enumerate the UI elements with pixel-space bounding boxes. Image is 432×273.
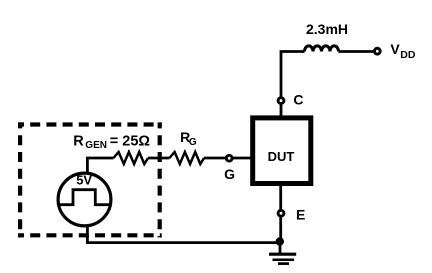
- wire: junction to ground: [279, 242, 282, 255]
- svg-text:DUT: DUT: [268, 149, 295, 164]
- dashed generator box: [18, 122, 162, 237]
- ground: [269, 254, 296, 263]
- node E open circle: [278, 210, 284, 216]
- node C open circle: [278, 98, 284, 104]
- svg-text:G: G: [189, 137, 197, 148]
- wire: RG to DUT gate: [204, 157, 253, 160]
- svg-text:5V: 5V: [76, 173, 92, 188]
- wire: inductor to VDD terminal: [339, 50, 374, 53]
- svg-text:C: C: [293, 92, 303, 108]
- svg-text:G: G: [224, 166, 235, 182]
- svg-text:E: E: [296, 206, 305, 222]
- resistor RGEN zigzag: [114, 152, 149, 164]
- svg-text:2.3mH: 2.3mH: [306, 21, 348, 37]
- node G open circle: [226, 155, 232, 161]
- junction dot: [276, 237, 284, 245]
- svg-text:= 25Ω: = 25Ω: [110, 133, 151, 149]
- svg-text:DD: DD: [400, 49, 416, 61]
- pulse source V1 circle: [58, 173, 111, 226]
- wire: source bottom to ground junction: [87, 226, 279, 243]
- DUT box U1: [253, 118, 311, 184]
- wire: top rail from C node corner to inductor: [281, 52, 305, 117]
- inductor L1 2.3mH: [305, 46, 339, 52]
- wire: RGEN to RG: [148, 157, 170, 160]
- svg-text:R: R: [73, 133, 84, 149]
- terminal VDD: [374, 48, 380, 54]
- svg-text:GEN: GEN: [85, 140, 107, 151]
- wire: DUT emitter down to junction: [279, 184, 282, 243]
- svg-text:V: V: [390, 41, 400, 57]
- resistor RG zigzag: [170, 152, 205, 164]
- pulse waveform symbol: [59, 190, 110, 205]
- wire: gate row from source top through resistors to DUT: [87, 158, 113, 175]
